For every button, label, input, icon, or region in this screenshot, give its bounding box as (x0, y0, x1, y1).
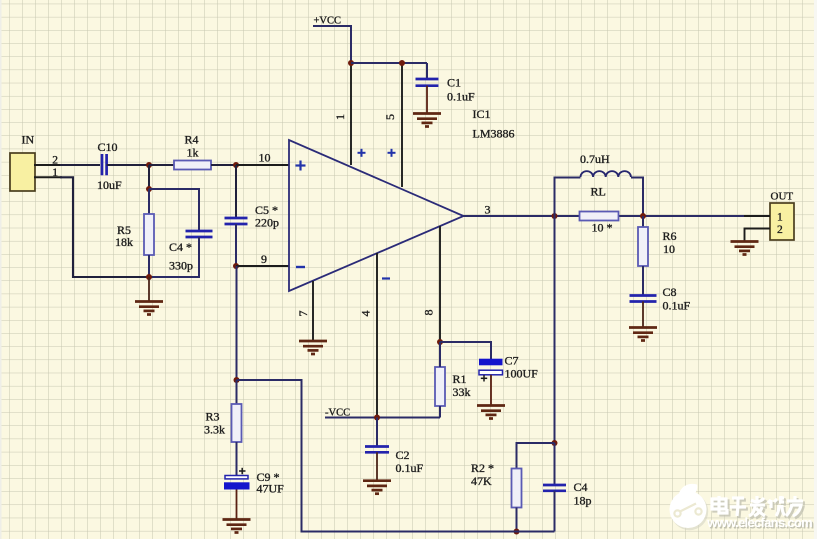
wire inductor right branch (631, 178, 643, 217)
svg-text:18k: 18k (115, 235, 133, 249)
bottom rail junction (514, 529, 520, 535)
capacitor C4 330p (186, 231, 213, 237)
pin 5 line (401, 63, 403, 187)
ground OUT (731, 242, 759, 255)
wire to R6 (642, 216, 644, 227)
svg-text:LM3886: LM3886 (473, 127, 515, 141)
wire C1 to ground (426, 86, 428, 114)
ground input (135, 302, 163, 315)
svg-text:IN: IN (22, 133, 35, 147)
pin 9 wire to op-amp (236, 265, 289, 267)
resistor R5 (144, 214, 154, 255)
svg-text:330p: 330p (169, 259, 193, 273)
connector J-OUT (770, 203, 794, 240)
op-amp IC1 LM3886 triangle (289, 140, 464, 291)
pin 8 line (439, 226, 441, 342)
pin 3 output wire (464, 215, 771, 217)
capacitor C5 220p (225, 218, 248, 224)
wire inductor left branch (555, 178, 581, 217)
svg-text:C4 *: C4 * (169, 240, 192, 254)
capacitor C1 (416, 79, 439, 86)
wire IN1 down to ground node (60, 177, 149, 277)
junction pin4/-VCC (374, 415, 380, 421)
svg-text:C1: C1 (447, 76, 461, 90)
wire C10 to node A (107, 164, 149, 166)
wire pin8 to R1 (439, 342, 441, 367)
svg-text:9: 9 (261, 252, 267, 266)
feedback junction R2/C4 (552, 440, 558, 446)
resistor RL (580, 212, 619, 221)
wire pin4 node to C2 (376, 418, 378, 447)
wire bottom rail (237, 380, 555, 532)
capacitor C9 polarized (225, 476, 248, 479)
svg-text:100UF: 100UF (505, 367, 539, 381)
wire C4 to ground node (149, 237, 199, 277)
ground pin7 (299, 341, 327, 354)
watermark text dianzifashaoyou (714, 498, 805, 518)
capacitor C7 polarized (479, 359, 503, 366)
pin 10 wire to op-amp (236, 164, 289, 166)
svg-text:0.1uF: 0.1uF (663, 299, 691, 313)
svg-text:3: 3 (485, 202, 491, 216)
wire C4 to bottom rail (554, 491, 556, 532)
svg-text:C10: C10 (98, 140, 118, 154)
ground node junction (146, 274, 152, 280)
svg-text:33k: 33k (453, 385, 471, 399)
svg-text:R1: R1 (453, 372, 467, 386)
wire output to feedback (554, 216, 556, 443)
wire to R2 (517, 443, 555, 469)
svg-text:8: 8 (422, 310, 436, 316)
svg-text:1k: 1k (187, 146, 199, 160)
resistor R1 (435, 367, 445, 406)
svg-text:www.elecfans.com: www.elecfans.com (706, 515, 812, 530)
svg-text:18p: 18p (574, 494, 592, 508)
pin 4 line (376, 253, 378, 417)
wire pin8 node to C7 (440, 342, 491, 359)
svg-text:C2: C2 (396, 448, 410, 462)
C9 plus mark (239, 468, 246, 474)
op-amp plus input symbol (296, 161, 306, 171)
OUT pin 2 line (745, 229, 771, 242)
pin8 junction (437, 339, 443, 345)
svg-text:C4: C4 (574, 480, 588, 494)
wire rail to C1 (426, 63, 428, 79)
svg-text:1: 1 (333, 114, 347, 120)
svg-text:IC1: IC1 (473, 107, 491, 121)
feedback node junction (234, 377, 240, 383)
pin 4 minus mark (382, 277, 390, 279)
page edge (814, 0, 817, 539)
junction pin5/+VCC (399, 60, 405, 66)
inductor 0.7uH (581, 171, 631, 177)
wire node D down to feedback node (236, 266, 238, 380)
wire node A to R4 (149, 164, 174, 166)
svg-text:R4: R4 (185, 133, 199, 147)
svg-text:R6: R6 (663, 229, 677, 243)
node C junction (233, 162, 239, 168)
wire C5 to node D (235, 224, 237, 266)
capacitor C4 18p (543, 485, 566, 491)
junction pin1/+VCC (348, 60, 354, 66)
svg-text:10: 10 (259, 151, 271, 165)
ground C7 (477, 406, 505, 419)
pin 1 plus mark (358, 149, 366, 157)
output junction (552, 213, 558, 219)
svg-text:RL: RL (591, 185, 606, 199)
svg-text:OUT: OUT (771, 191, 794, 203)
svg-text:2: 2 (777, 224, 783, 236)
wire node A down (148, 165, 150, 189)
node B junction (146, 186, 152, 192)
watermark logo (670, 484, 709, 530)
svg-text:C8: C8 (663, 285, 677, 299)
wire C9 to ground (236, 490, 238, 520)
wire to ground (148, 277, 150, 301)
pin 1 line (350, 63, 352, 165)
svg-text:0.1uF: 0.1uF (396, 461, 424, 475)
connector J-IN (10, 153, 35, 191)
node D junction (233, 263, 239, 269)
ground C1 (413, 114, 441, 127)
svg-text:47UF: 47UF (257, 482, 285, 496)
pin 2 wire (34, 164, 62, 166)
capacitor C8 (630, 296, 657, 302)
wire C2 to ground (376, 452, 378, 480)
resistor R2 (512, 469, 522, 508)
capacitor C2 (365, 447, 389, 453)
ground C2 (363, 481, 391, 494)
pin 7 line (312, 281, 314, 341)
svg-text:5: 5 (383, 114, 397, 120)
wire C8 to ground (642, 302, 644, 328)
ground C9 (223, 520, 251, 533)
svg-text:10 *: 10 * (592, 221, 613, 235)
wire node B to C4 (149, 189, 199, 231)
capacitor C10 (102, 154, 107, 175)
wire R2 to bottom rail (516, 508, 518, 532)
junction R6 (640, 213, 646, 219)
wire R5 to ground node (148, 255, 150, 277)
resistor R4 (174, 161, 211, 170)
svg-text:+VCC: +VCC (314, 16, 342, 27)
wire node B to R5 (148, 189, 150, 214)
wire R1 to -VCC (439, 406, 441, 418)
svg-text:0.1uF: 0.1uF (447, 90, 475, 104)
wire C7 to ground (490, 375, 492, 406)
wire +VCC rail (351, 62, 427, 64)
OUT pin 1 line (744, 215, 770, 217)
node A junction (146, 162, 152, 168)
svg-text:3.3k: 3.3k (204, 423, 225, 437)
svg-text:7: 7 (296, 311, 310, 317)
wire feedback node to R3 (236, 380, 238, 404)
svg-text:C7: C7 (505, 354, 519, 368)
resistor R3 (232, 404, 242, 442)
svg-text:10uF: 10uF (97, 178, 122, 192)
resistor R6 (638, 227, 648, 266)
op-amp minus input symbol (296, 266, 305, 268)
wire +VCC (313, 26, 351, 63)
wire R4 to node C (211, 164, 236, 166)
wire R3 to C9 (236, 442, 238, 476)
wire IN2 to C10 (60, 164, 100, 166)
wire R6 to C8 (642, 266, 644, 296)
ground C8 (629, 328, 657, 341)
svg-text:4: 4 (359, 311, 373, 317)
svg-text:10: 10 (663, 242, 675, 256)
svg-text:0.7uH: 0.7uH (580, 152, 610, 166)
pin 5 plus mark (388, 149, 396, 157)
wire to C4 18p (554, 443, 556, 485)
svg-text:47K: 47K (471, 474, 492, 488)
pin 1 wire (34, 176, 62, 178)
C7 plus mark (481, 375, 487, 381)
svg-text:220p: 220p (255, 216, 279, 230)
wire node C to C5 (235, 165, 237, 218)
svg-text:1: 1 (777, 212, 783, 224)
wire -VCC (325, 417, 440, 419)
svg-text:R3: R3 (206, 410, 220, 424)
